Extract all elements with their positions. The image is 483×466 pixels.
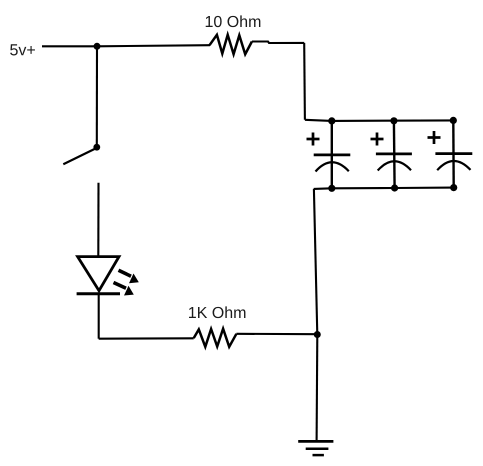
LED D1 cathode bar <box>77 292 120 295</box>
capacitor bottom rail <box>314 188 454 189</box>
wire switch lower terminal to LED <box>97 183 99 257</box>
wire node A down to switch <box>96 46 98 147</box>
C1 polarity + <box>307 133 320 146</box>
wire node A to resistor R1 <box>97 45 210 46</box>
switch SW1 pivot dot <box>93 144 100 151</box>
label R1 value 10 Ohm <box>206 15 261 27</box>
junction dot bottom of C1 <box>328 185 335 192</box>
wire LED cathode down to bottom corner <box>98 294 100 339</box>
junction dot top of C3 <box>450 117 457 124</box>
wire 5v+ lead to node A <box>42 45 97 47</box>
LED D1 triangle <box>78 257 119 291</box>
resistor R2 <box>194 329 237 347</box>
LED D1 light arrow 2 <box>114 283 134 296</box>
capacitor C1 <box>314 121 351 188</box>
node A junction dot <box>94 43 101 50</box>
C3 polarity + <box>428 131 441 144</box>
capacitor top rail <box>332 119 454 122</box>
node B junction dot <box>314 331 321 338</box>
net label 5v+ <box>10 44 35 55</box>
ground symbol <box>298 441 333 455</box>
capacitor C3 <box>435 120 472 187</box>
label R2 value 1K Ohm <box>189 306 245 318</box>
wire into capacitor top rail <box>305 120 332 121</box>
wire node B to resistor R2 <box>236 333 317 336</box>
wire corner down toward capacitor bank <box>303 43 306 120</box>
junction dot top of C1 <box>328 117 335 124</box>
LED D1 light arrow 1 <box>119 270 139 283</box>
switch SW1 blade <box>63 149 95 164</box>
C2 polarity + <box>371 133 384 146</box>
capacitor C2 <box>376 121 412 188</box>
wire node B down to ground <box>316 335 319 442</box>
junction dot top of C2 <box>390 117 397 124</box>
wire R2 to LED bottom corner <box>99 337 194 340</box>
junction dot bottom of C2 <box>391 184 398 191</box>
wire R1 to top-right corner <box>252 42 304 44</box>
resistor R1 <box>210 35 252 54</box>
wire capacitor bank down to node B <box>314 189 317 335</box>
junction dot bottom of C3 <box>450 184 457 191</box>
